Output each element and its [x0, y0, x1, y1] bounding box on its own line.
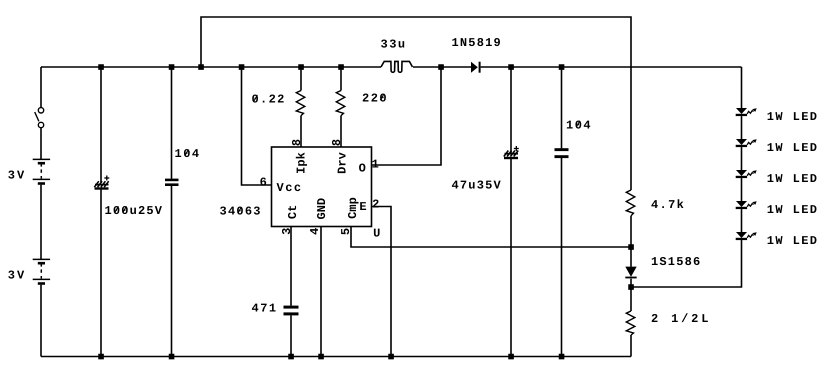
wire bottom rail — [41, 356, 631, 358]
inductor L1 33u — [381, 61, 413, 72]
svg-text:0.22: 0.22 — [252, 93, 285, 107]
svg-text:E: E — [359, 200, 366, 214]
wire 104 left capacitor branch bottom — [171, 186, 173, 357]
wire LED3 to LED4 — [741, 178, 743, 201]
node bottom dot pin2 — [388, 354, 394, 360]
wire 220 resistor bottom stub — [340, 116, 342, 147]
svg-text:1N5819: 1N5819 — [452, 36, 501, 50]
svg-text:2: 2 — [372, 198, 379, 212]
node rail dot 0.22 — [298, 64, 304, 70]
svg-text:U: U — [373, 226, 380, 240]
node LED return dot — [628, 284, 634, 290]
svg-text:GND: GND — [315, 198, 329, 220]
diode D7 1S1586 — [625, 267, 636, 279]
wire 104 right capacitor branch bottom — [561, 158, 563, 357]
LED D4 1W — [736, 201, 757, 209]
wire 0.22 resistor top stub — [300, 67, 302, 91]
wire 104 left capacitor branch top — [171, 67, 173, 179]
svg-text:6: 6 — [260, 176, 267, 190]
svg-text:8: 8 — [290, 139, 304, 146]
svg-text:1W LED: 1W LED — [767, 110, 817, 124]
wire LED chain bottom return — [631, 240, 742, 287]
op-amp U1 34063 IC body — [272, 147, 372, 227]
wire battery2 to bottom rail — [40, 285, 42, 357]
node rail dot 47u — [508, 64, 514, 70]
wire 100u capacitor branch top — [100, 67, 102, 183]
wire LED2 to LED3 — [741, 147, 743, 170]
wire feedback loop top — [201, 17, 631, 190]
svg-text:Cmp: Cmp — [346, 197, 360, 219]
svg-text:Ipk: Ipk — [295, 152, 309, 174]
wire LED chain top — [741, 67, 743, 108]
svg-text:1W LED: 1W LED — [767, 234, 817, 248]
node rail dot 104 right — [559, 64, 565, 70]
capacitor C4 47u35V electrolytic — [504, 146, 519, 159]
svg-text:Vcc: Vcc — [277, 181, 302, 195]
svg-text:3V: 3V — [8, 269, 25, 283]
node bottom dot 104 left — [169, 354, 175, 360]
wire battery1 to battery2 — [40, 185, 42, 260]
svg-text:4.7k: 4.7k — [651, 198, 684, 212]
wire pin4 GND to rail — [320, 227, 322, 357]
svg-text:104: 104 — [566, 118, 591, 132]
svg-text:471: 471 — [252, 302, 277, 316]
node rail dot 104 left — [169, 64, 175, 70]
LED D1 1W — [736, 108, 757, 116]
wire battery column top — [40, 67, 42, 108]
wire pin2 emitter to ground — [372, 207, 392, 357]
svg-text:2 1/2L: 2 1/2L — [651, 312, 708, 326]
wire 104 right capacitor branch top — [561, 67, 563, 148]
node rail dot Vcc — [239, 64, 245, 70]
wire pin3 Ct bottom — [290, 315, 292, 356]
slashed zero marks — [115, 94, 580, 213]
resistor R4 2 1/2L — [626, 311, 635, 335]
svg-text:O: O — [359, 162, 366, 176]
node sense dot comparator — [628, 244, 634, 250]
capacitor C3 471 — [284, 306, 299, 316]
svg-text:4: 4 — [308, 228, 322, 235]
capacitor C5 104 ceramic right — [555, 148, 569, 158]
node rail dot feedback — [198, 64, 204, 70]
capacitor C1 100u25V electrolytic — [94, 176, 109, 190]
wire 47u capacitor branch bottom — [510, 159, 512, 357]
svg-text:100u25V: 100u25V — [105, 204, 163, 218]
node bottom dot 100u — [98, 354, 104, 360]
diode D6 1N5819 — [471, 62, 481, 73]
wire 4.7k to sense node — [630, 216, 632, 267]
LED D5 1W — [736, 232, 757, 240]
svg-text:1W LED: 1W LED — [767, 141, 817, 155]
svg-text:Ct: Ct — [286, 205, 300, 219]
svg-text:47u35V: 47u35V — [452, 178, 502, 192]
capacitor C2 104 ceramic — [165, 179, 179, 186]
wire 220 resistor top stub — [340, 67, 342, 91]
svg-text:8: 8 — [330, 139, 344, 146]
svg-text:3: 3 — [280, 228, 294, 235]
wire switch to battery1 — [40, 128, 42, 160]
svg-text:1W LED: 1W LED — [767, 172, 817, 186]
node bottom dot 47u — [508, 354, 514, 360]
svg-text:3V: 3V — [8, 169, 25, 183]
svg-text:34063: 34063 — [220, 205, 261, 219]
svg-text:220: 220 — [362, 92, 387, 106]
wire top rail mid segment — [413, 66, 471, 68]
wire top rail left segment — [41, 66, 381, 68]
wire 1S1586 to LED return node — [630, 279, 632, 311]
wire 100u capacitor branch bottom — [100, 190, 102, 357]
svg-text:1W LED: 1W LED — [767, 203, 817, 217]
wire pin5 comparator to sense node — [351, 227, 631, 248]
resistor R1 0.22 — [296, 91, 305, 116]
node rail dot 220 — [338, 64, 344, 70]
svg-text:Drv: Drv — [336, 152, 350, 174]
wire 0.22 resistor bottom stub — [300, 116, 302, 147]
node bottom dot pin3 — [288, 354, 294, 360]
svg-text:1S1586: 1S1586 — [651, 255, 700, 269]
node bottom dot pin4 — [318, 354, 324, 360]
svg-text:104: 104 — [175, 147, 200, 161]
wire top rail right segment — [481, 66, 742, 68]
battery B1 3V — [33, 159, 50, 183]
wire Vcc branch — [242, 67, 272, 185]
wire LED1 to LED2 — [741, 116, 743, 139]
svg-text:33u: 33u — [381, 38, 406, 52]
LED D2 1W — [736, 139, 757, 147]
resistor R2 220 — [336, 91, 345, 116]
node bottom dot 104 right — [559, 354, 565, 360]
wire LED4 to LED5 — [741, 209, 743, 232]
LED D3 1W — [736, 170, 757, 178]
node rail dot output — [438, 64, 444, 70]
wire pin3 Ct top — [290, 227, 292, 306]
node rail dot 100u — [98, 64, 104, 70]
wire 47u capacitor branch top — [510, 67, 512, 153]
wire pin1 output to rail — [372, 67, 442, 165]
resistor R3 4.7k — [626, 190, 635, 216]
wire 2 ohm resistor to bottom rail — [630, 335, 632, 357]
battery B2 3V — [33, 259, 50, 283]
switch S1 — [35, 108, 44, 128]
